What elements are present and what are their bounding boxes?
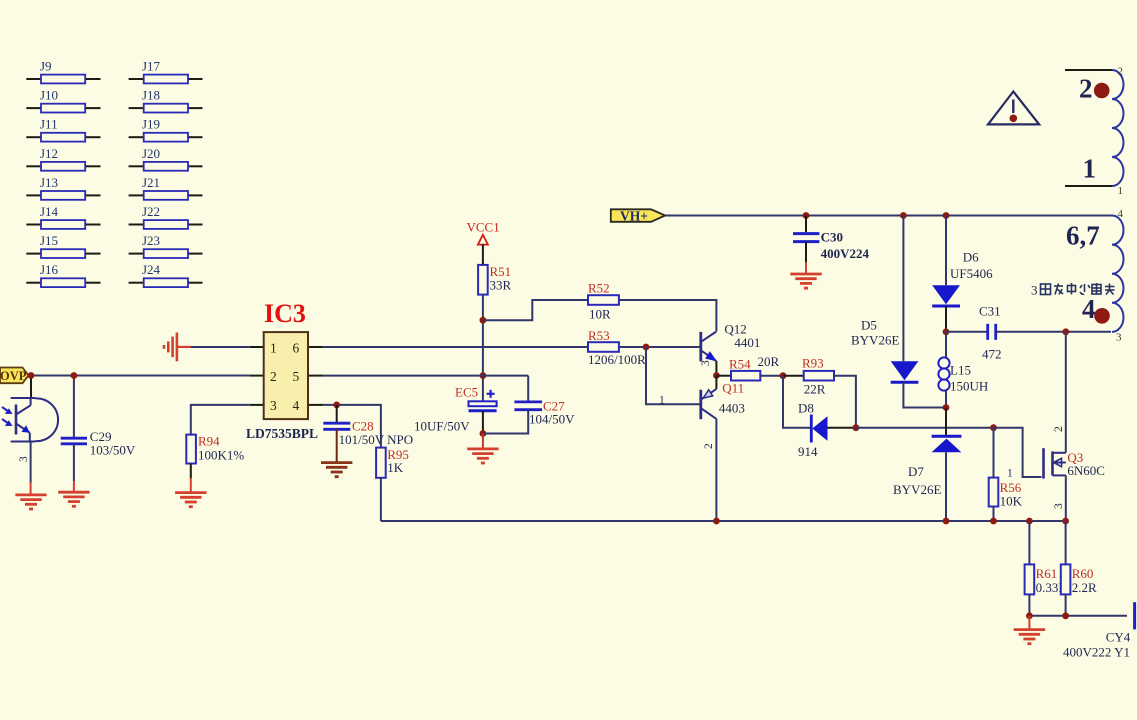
jumper J15 xyxy=(26,233,100,258)
transformer winding 1-2 coil xyxy=(1112,70,1124,186)
wire node to D7 xyxy=(945,408,947,437)
svg-text:400V224: 400V224 xyxy=(821,246,870,261)
svg-text:J18: J18 xyxy=(142,88,160,103)
svg-text:4: 4 xyxy=(293,398,300,413)
svg-text:103/50V: 103/50V xyxy=(90,443,136,458)
warning triangle xyxy=(988,92,1039,125)
jumper J23 xyxy=(129,233,203,258)
wire C30 stem xyxy=(805,216,807,233)
diode D5 xyxy=(891,361,919,382)
svg-text:1: 1 xyxy=(1083,154,1097,184)
wire D7 to bus xyxy=(945,452,947,521)
wire R60 bottom xyxy=(1065,594,1067,615)
wire R56 vertical xyxy=(993,428,995,478)
wire EC5 node to ground xyxy=(482,434,484,449)
wire R52 branch xyxy=(483,300,588,320)
node R61 bottom xyxy=(1026,612,1033,619)
node Q3 drain xyxy=(1062,328,1069,335)
node OVP junction xyxy=(28,372,35,379)
svg-text:4403: 4403 xyxy=(719,401,745,416)
svg-text:OVP: OVP xyxy=(0,369,27,383)
svg-text:6N60C: 6N60C xyxy=(1067,463,1105,478)
svg-text:2: 2 xyxy=(703,443,715,449)
wire IC3 pin5 row to EC5/C27 xyxy=(323,375,528,377)
svg-text:5: 5 xyxy=(293,369,300,384)
svg-text:2: 2 xyxy=(1118,66,1124,78)
op-amp/IC box IC3 xyxy=(264,332,308,419)
svg-text:400V222 Y1: 400V222 Y1 xyxy=(1063,645,1130,660)
wire EC5 bottom to gnd node xyxy=(482,411,484,434)
wire C28 stem xyxy=(336,405,338,422)
svg-text:1: 1 xyxy=(270,341,277,356)
resistor R56 xyxy=(989,478,999,507)
transformer winding 1-2 top stubs xyxy=(1065,69,1112,71)
svg-text:R61: R61 xyxy=(1036,566,1058,581)
svg-text:J21: J21 xyxy=(142,175,160,190)
wire C29 to ground xyxy=(73,444,75,481)
wire R93 right down to D8 node xyxy=(834,376,856,428)
phase dot winding 2 xyxy=(1094,83,1110,99)
jumper J16 xyxy=(26,262,100,287)
wire OVP to opto collector xyxy=(30,376,32,399)
svg-text:R60: R60 xyxy=(1072,566,1094,581)
wire VH+ bus xyxy=(665,215,1112,217)
wire earth to IC3 pin 1 xyxy=(191,346,250,348)
svg-text:J17: J17 xyxy=(142,59,161,74)
svg-text:1K: 1K xyxy=(387,460,404,475)
svg-text:150UH: 150UH xyxy=(950,379,988,394)
wire C27 bottom xyxy=(483,410,528,434)
capacitor CY4 xyxy=(1133,602,1136,629)
svg-text:6: 6 xyxy=(293,341,300,356)
resistor R51 xyxy=(478,265,488,295)
node D8/R93 xyxy=(853,424,860,431)
transistor Q3 MOSFET xyxy=(1044,448,1066,478)
wire D8 to node xyxy=(828,427,856,429)
wire R56 to bus xyxy=(993,507,995,522)
node bus R61 xyxy=(1026,518,1033,525)
wire R94 to ground xyxy=(190,464,192,479)
wire C31 to transformer pin3 xyxy=(996,331,1111,333)
ground C29 xyxy=(58,492,89,506)
wire IC3 pin6 row to R53 xyxy=(323,346,588,348)
wire VCC1 to R51 xyxy=(482,245,484,265)
svg-text:3: 3 xyxy=(1031,283,1038,298)
capacitor C29 xyxy=(61,438,87,444)
svg-text:20R: 20R xyxy=(758,354,780,369)
jumper J21 xyxy=(129,175,203,200)
wire IC3 pin4 to R95 xyxy=(323,405,381,448)
node C29 junction xyxy=(71,372,78,379)
node R56 top xyxy=(990,424,997,431)
svg-text:J13: J13 xyxy=(40,175,58,190)
svg-text:J19: J19 xyxy=(142,117,160,132)
svg-text:R53: R53 xyxy=(588,328,610,343)
wire R54 to R93 node xyxy=(760,375,783,377)
transistor Q12 xyxy=(701,332,717,362)
capacitor C31 xyxy=(988,324,996,340)
node L15/D5/D7 xyxy=(943,404,950,411)
wire Q3 drain up xyxy=(1065,332,1067,453)
svg-text:10R: 10R xyxy=(589,307,611,322)
inductor L15 xyxy=(938,357,949,390)
wire D8 branch xyxy=(783,376,810,428)
svg-text:BYV26E: BYV26E xyxy=(893,482,941,497)
wire R53 junction to Q11 base xyxy=(646,347,701,404)
jumper J22 xyxy=(129,204,203,229)
resistor R54 xyxy=(731,371,760,381)
svg-text:2.2R: 2.2R xyxy=(1072,580,1097,595)
svg-text:C30: C30 xyxy=(821,230,843,245)
resistor R61 xyxy=(1025,564,1035,594)
wire D6 vertical xyxy=(945,216,947,286)
phase dot winding 4 xyxy=(1094,308,1110,324)
wire D8 node to R56 node xyxy=(856,427,994,429)
svg-text:4: 4 xyxy=(1082,294,1096,324)
svg-text:CY4: CY4 xyxy=(1106,630,1131,645)
svg-text:6,7: 6,7 xyxy=(1066,221,1100,251)
svg-text:914: 914 xyxy=(798,444,818,459)
wire Q3 source down xyxy=(1065,475,1067,521)
svg-text:C31: C31 xyxy=(979,304,1001,319)
node Q12/Q11/R54 xyxy=(713,372,720,379)
wire R52 to Q12 collector xyxy=(619,300,717,331)
wire bottom bus xyxy=(381,520,1066,522)
svg-text:J12: J12 xyxy=(40,146,58,161)
svg-text:D5: D5 xyxy=(861,318,877,333)
svg-text:3: 3 xyxy=(1116,332,1122,344)
jumper J13 xyxy=(26,175,100,200)
svg-text:2: 2 xyxy=(1079,74,1093,104)
svg-text:22R: 22R xyxy=(804,382,826,397)
svg-text:D8: D8 xyxy=(798,401,814,416)
node D5 xyxy=(900,212,907,219)
svg-text:BYV26E: BYV26E xyxy=(851,333,899,348)
resistor R94 xyxy=(186,435,196,464)
svg-text:101/50V NPO: 101/50V NPO xyxy=(339,432,414,447)
wire D5 to L15 bottom node xyxy=(903,382,946,407)
node pin5 row junction xyxy=(480,372,487,379)
svg-text:VH+: VH+ xyxy=(620,208,648,223)
svg-text:3: 3 xyxy=(700,360,712,366)
jumper J18 xyxy=(129,88,203,113)
svg-text:3: 3 xyxy=(270,398,277,413)
wire IC3 pin3 to R94 xyxy=(191,405,250,435)
power port OVP xyxy=(0,368,29,384)
resistor R95 xyxy=(376,448,386,478)
node EC5 bottom junction xyxy=(480,430,487,437)
svg-text:3: 3 xyxy=(18,456,30,462)
wire R61 top xyxy=(1028,521,1030,564)
ground opto xyxy=(15,495,46,509)
wire Q11 emitter up xyxy=(715,376,717,389)
svg-text:1: 1 xyxy=(659,394,665,406)
svg-text:4401: 4401 xyxy=(734,335,760,350)
wire R60 top xyxy=(1065,521,1067,564)
wire L15 bottom xyxy=(945,391,947,408)
jumper J14 xyxy=(26,204,100,229)
wire gate branch xyxy=(994,428,1042,477)
svg-text:UF5406: UF5406 xyxy=(950,266,993,281)
svg-text:D7: D7 xyxy=(908,464,924,479)
wire opto emitter down xyxy=(30,442,32,483)
earth ground at IC3 pin 1 (rotated) xyxy=(164,333,191,362)
node R54/R93/D8 xyxy=(780,372,787,379)
svg-text:EC5: EC5 xyxy=(455,385,478,400)
wire R61 bottom xyxy=(1028,594,1030,615)
jumper J20 xyxy=(129,146,203,171)
wire Q12 emitter to node xyxy=(715,361,717,375)
optocoupler transistor U-opto xyxy=(2,398,58,442)
svg-text:33R: 33R xyxy=(490,278,512,293)
wire node to R93 xyxy=(783,375,804,377)
node R51/R52 junction xyxy=(480,317,487,324)
svg-text:R54: R54 xyxy=(729,357,751,372)
jumper J10 xyxy=(26,88,100,113)
ground C28 (maroon) xyxy=(321,463,352,477)
IC3 pin stubs xyxy=(250,347,323,405)
capacitor C30 xyxy=(793,234,819,242)
svg-text:2: 2 xyxy=(270,369,277,384)
jumper J19 xyxy=(129,117,203,142)
svg-text:J20: J20 xyxy=(142,146,160,161)
svg-text:J9: J9 xyxy=(40,59,52,74)
svg-text:1: 1 xyxy=(1118,185,1124,197)
power port VH+ xyxy=(611,208,665,223)
node D6/L15/C31 xyxy=(943,328,950,335)
resistor R93 xyxy=(804,371,834,381)
node Q11 collector on bus xyxy=(713,518,720,525)
wire OVP to C29 xyxy=(73,376,75,438)
jumper J9 xyxy=(26,59,100,84)
pin numbers IC3 xyxy=(270,341,300,414)
transformer winding 4-3 coil xyxy=(1112,216,1124,332)
svg-text:J14: J14 xyxy=(40,204,59,219)
svg-text:R94: R94 xyxy=(198,434,220,449)
wire D5 vertical xyxy=(902,216,904,362)
resistor R52 xyxy=(588,295,619,305)
svg-text:3: 3 xyxy=(1053,503,1065,509)
svg-text:J22: J22 xyxy=(142,204,160,219)
ground CY4 xyxy=(1014,630,1045,644)
svg-text:J11: J11 xyxy=(40,117,58,132)
wire R53 to Q12 base xyxy=(619,346,701,348)
ground C30 xyxy=(790,274,821,288)
wire CY4 node to ground xyxy=(1028,616,1030,630)
svg-text:J24: J24 xyxy=(142,262,161,277)
svg-text:10K: 10K xyxy=(1000,494,1023,509)
wire D6 to C31 node xyxy=(945,306,947,332)
svg-text:VCC1: VCC1 xyxy=(467,220,500,235)
jumper J11 xyxy=(26,117,100,142)
resistor R60 xyxy=(1061,564,1071,594)
ground R94 xyxy=(175,493,206,507)
wire C30 to ground xyxy=(805,242,807,262)
svg-text:Q11: Q11 xyxy=(722,381,744,396)
node C30 xyxy=(803,212,810,219)
node D6 xyxy=(943,212,950,219)
capacitor C27 xyxy=(514,402,542,410)
svg-text:472: 472 xyxy=(982,347,1002,362)
svg-text:J10: J10 xyxy=(40,88,58,103)
wire L15 top xyxy=(945,332,947,358)
wire C31 row xyxy=(946,331,987,333)
svg-text:J15: J15 xyxy=(40,233,58,248)
wire Q11 collector to bus xyxy=(715,419,717,521)
svg-text:10UF/50V: 10UF/50V xyxy=(414,419,470,434)
wire CY4 row xyxy=(1029,615,1127,617)
diode D7 xyxy=(932,436,962,452)
svg-text:D6: D6 xyxy=(963,250,979,265)
capacitor C28 xyxy=(323,423,350,429)
svg-text:2: 2 xyxy=(1053,426,1065,432)
wire C27 branch xyxy=(527,376,529,401)
node C28 junction xyxy=(333,402,340,409)
node R60 bottom xyxy=(1062,612,1069,619)
wire node to R54 xyxy=(716,375,731,377)
jumper J12 xyxy=(26,146,100,171)
svg-text:R52: R52 xyxy=(588,281,610,296)
diode D6 xyxy=(932,285,960,306)
svg-text:4: 4 xyxy=(1118,208,1124,220)
svg-text:J23: J23 xyxy=(142,233,160,248)
jumper J24 xyxy=(129,262,203,287)
resistor R53 xyxy=(588,342,619,352)
svg-text:104/50V: 104/50V xyxy=(529,412,575,427)
node R53 junction xyxy=(643,344,650,351)
node R56 bus xyxy=(990,518,997,525)
svg-text:LD7535BPL: LD7535BPL xyxy=(246,426,318,441)
diode D8 xyxy=(811,415,827,443)
wire OVP net horizontal xyxy=(29,375,250,377)
svg-text:R93: R93 xyxy=(802,356,824,371)
wire C28 to ground (maroon) xyxy=(336,429,338,462)
node bus R60/Q3 xyxy=(1062,518,1069,525)
node D7 on bus xyxy=(943,518,950,525)
jumper J17 xyxy=(129,59,203,84)
svg-text:L15: L15 xyxy=(950,363,971,378)
wire R51 down through EC5 to ground xyxy=(482,295,484,402)
svg-text:1206/100R: 1206/100R xyxy=(588,352,646,367)
svg-text:1: 1 xyxy=(1007,468,1013,480)
wire R95 to bottom bus xyxy=(380,478,382,521)
svg-text:J16: J16 xyxy=(40,262,59,277)
transistor Q11 xyxy=(701,389,717,419)
svg-text:100K1%: 100K1% xyxy=(198,448,244,463)
ground EC5 xyxy=(467,449,498,463)
svg-text:IC3: IC3 xyxy=(264,299,306,328)
